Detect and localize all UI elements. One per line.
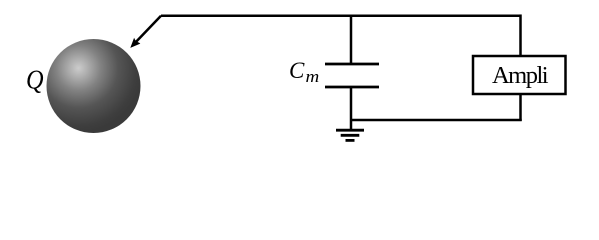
wire capacitor bottom lead xyxy=(350,87,353,130)
svg-text:Q: Q xyxy=(26,64,44,94)
wire amplifier bottom lead xyxy=(519,94,522,121)
wire top horizontal xyxy=(161,14,521,17)
svg-text:m: m xyxy=(306,67,320,86)
wire bottom horizontal xyxy=(351,119,522,122)
capacitor Cm bottom plate xyxy=(325,86,379,89)
svg-text:Ampli: Ampli xyxy=(492,62,549,89)
svg-text:C: C xyxy=(289,58,305,83)
wire right vertical to amplifier top xyxy=(519,14,522,57)
ground xyxy=(336,130,364,140)
capacitor Cm top plate xyxy=(325,63,379,66)
wire capacitor top lead xyxy=(350,16,353,64)
amplifier U1 box xyxy=(473,56,566,94)
wire arrow to sphere xyxy=(130,16,161,48)
sphere Q xyxy=(47,39,141,133)
